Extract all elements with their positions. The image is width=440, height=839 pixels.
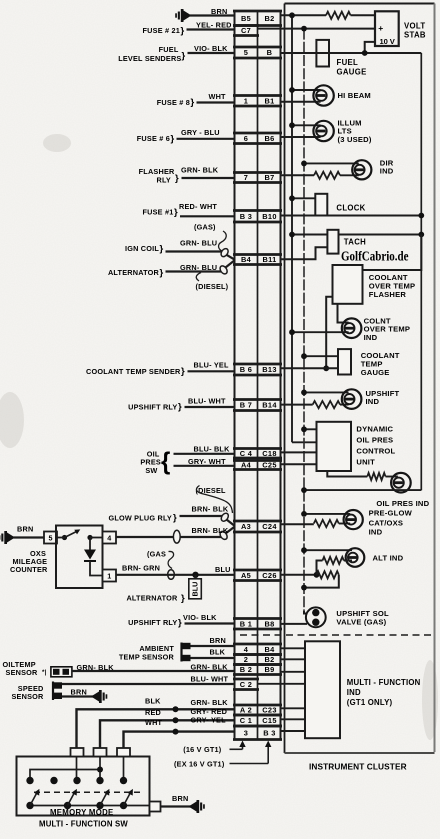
svg-text:WHT: WHT bbox=[209, 92, 227, 101]
connector cell C2 bbox=[233, 679, 259, 690]
wire GRY-WHT to A4 bbox=[174, 465, 235, 467]
bus line 2 (x304) bbox=[303, 29, 305, 613]
wire C18 to dyn unit bbox=[281, 451, 317, 453]
svg-text:}: } bbox=[178, 402, 182, 413]
sw contact dots row1 bbox=[26, 777, 127, 784]
svg-text:5: 5 bbox=[244, 48, 248, 57]
wire B11 staircase to tach bbox=[281, 247, 328, 259]
svg-text:}: } bbox=[171, 134, 175, 145]
svg-text:BLU- WHT: BLU- WHT bbox=[191, 675, 229, 684]
svg-text:IND: IND bbox=[366, 397, 380, 406]
svg-text:VALVE (GAS): VALVE (GAS) bbox=[336, 618, 386, 627]
wire GRY-BLU to 6 bbox=[177, 138, 235, 140]
svg-text:IND: IND bbox=[364, 333, 378, 342]
wire BLU-WHT to B7 bbox=[185, 406, 235, 408]
wire RED/GRY-RED to C1 bbox=[100, 720, 235, 756]
junction dot voltstab-rail bbox=[362, 50, 368, 56]
label OXS MILEAGE COUNTER bbox=[10, 549, 48, 574]
svg-text:GRN- BLK: GRN- BLK bbox=[181, 166, 219, 175]
wire B14 to resistor upshift bbox=[281, 404, 313, 406]
svg-text:4: 4 bbox=[107, 534, 111, 543]
wire C26 into node bbox=[281, 574, 317, 576]
wire bus1 to clock bbox=[292, 197, 315, 199]
svg-text:BRN- BLK: BRN- BLK bbox=[192, 526, 229, 535]
resistor R-oilpres bbox=[367, 473, 385, 480]
oxs wire pin5 to contacts bbox=[57, 537, 65, 539]
svg-text:UPSHIFT RLY: UPSHIFT RLY bbox=[128, 618, 177, 627]
svg-text:GRN- BLK: GRN- BLK bbox=[77, 663, 115, 672]
svg-text:UPSHIFT SOL: UPSHIFT SOL bbox=[336, 609, 389, 618]
connector cell B7/B14 bbox=[233, 400, 282, 411]
speed sensor symbol bbox=[53, 682, 62, 701]
wire tach to bus3 bbox=[339, 234, 422, 236]
svg-text:GAUGE: GAUGE bbox=[361, 368, 390, 377]
svg-text:ALTERNATOR: ALTERNATOR bbox=[108, 268, 160, 277]
svg-text:C25: C25 bbox=[262, 461, 276, 470]
svg-text:IND: IND bbox=[380, 167, 394, 176]
svg-text:GLOW PLUG RLY: GLOW PLUG RLY bbox=[108, 513, 172, 522]
svg-text:GRY- WHT: GRY- WHT bbox=[188, 457, 226, 466]
svg-text:MULTI - FUNCTION: MULTI - FUNCTION bbox=[347, 678, 421, 687]
connector cell A2/C23 bbox=[233, 705, 282, 715]
connector cell 5/B bbox=[233, 47, 282, 58]
lamp colnt over temp ind bbox=[342, 318, 362, 338]
wire BLK/GRN-BLK to A2 bbox=[77, 709, 235, 756]
connector cell 4/B4 bbox=[233, 644, 282, 655]
ground multi-function sw bbox=[189, 800, 205, 813]
svg-text:B4: B4 bbox=[264, 645, 275, 654]
wire gnd to pin5 bbox=[14, 536, 45, 538]
connector cell B6/B13 bbox=[233, 364, 282, 375]
svg-text:GRY- YEL: GRY- YEL bbox=[191, 716, 227, 725]
svg-text:B14: B14 bbox=[262, 401, 277, 410]
svg-text:5: 5 bbox=[49, 534, 53, 543]
splice dot C1 wire bbox=[173, 717, 179, 723]
connector cell 7/B7 bbox=[233, 173, 282, 183]
connector cell 1/B1 bbox=[233, 96, 282, 107]
volt stab U-VS box bbox=[375, 11, 399, 46]
wire stub multifunction 5 bbox=[281, 707, 306, 709]
oxs pin 4 box bbox=[103, 532, 117, 544]
svg-text:SW: SW bbox=[145, 466, 157, 475]
svg-text:}: } bbox=[181, 593, 185, 604]
label FLASHER RLY bbox=[139, 167, 175, 185]
svg-text:C 1: C 1 bbox=[240, 716, 252, 725]
svg-text:BRN: BRN bbox=[210, 636, 226, 645]
svg-text:AMBIENT: AMBIENT bbox=[139, 644, 174, 653]
svg-text:}: } bbox=[174, 207, 178, 218]
oxs mileage counter box bbox=[56, 526, 103, 589]
svg-text:BLK: BLK bbox=[210, 647, 226, 656]
svg-text:VIO- BLK: VIO- BLK bbox=[194, 44, 228, 53]
svg-text:TACH: TACH bbox=[344, 237, 366, 246]
wire bus1 to hi beam lamp bbox=[292, 89, 321, 91]
sw levers bbox=[30, 789, 133, 806]
svg-text:B11: B11 bbox=[262, 255, 276, 264]
label FUEL GAUGE bbox=[337, 58, 367, 77]
oxs pin 5 box bbox=[44, 532, 57, 544]
svg-text:(DIESEL): (DIESEL) bbox=[196, 282, 229, 291]
connector cell 2/B2 bbox=[233, 655, 282, 665]
svg-text:GolfCabrio.de: GolfCabrio.de bbox=[341, 249, 409, 264]
svg-text:PRE-GLOW: PRE-GLOW bbox=[369, 508, 413, 517]
svg-text:VOLT: VOLT bbox=[404, 21, 425, 30]
resistor R-upshift-ind bbox=[313, 401, 340, 408]
svg-text:TEMP SENSOR: TEMP SENSOR bbox=[119, 653, 175, 662]
wire B7 to resistor dir ind bbox=[281, 174, 315, 176]
upshift sol valve symbol bbox=[306, 607, 326, 627]
connector rail right bbox=[280, 11, 282, 740]
svg-text:}: } bbox=[178, 617, 182, 628]
svg-text:7: 7 bbox=[244, 173, 248, 182]
svg-text:BRN: BRN bbox=[211, 7, 227, 16]
svg-text:GRN- BLK: GRN- BLK bbox=[191, 662, 229, 671]
wire bus2 to preglow lamp bbox=[304, 513, 350, 515]
label MULTI-FUNCTION IND (GTI ONLY) bbox=[347, 678, 421, 707]
svg-text:CLOCK: CLOCK bbox=[336, 203, 365, 212]
label COLNT OVER TEMP IND bbox=[364, 316, 411, 342]
diode D1 bbox=[84, 550, 96, 562]
wire flasher left output to B13 bbox=[326, 297, 332, 369]
svg-text:FUEL: FUEL bbox=[337, 58, 359, 67]
connector cell A3/C24 bbox=[233, 521, 282, 532]
sw wire stub2 down bbox=[99, 757, 101, 781]
svg-text:BRN: BRN bbox=[172, 794, 188, 803]
wire VIO-BLK to 5 bbox=[188, 52, 235, 54]
svg-text:BRN- GRN: BRN- GRN bbox=[122, 564, 160, 573]
wire BLU-WHT to C2 bbox=[62, 683, 235, 685]
junction dot tach-bus1 bbox=[289, 232, 295, 238]
wire contact B down to diode bbox=[89, 538, 91, 550]
svg-text:CONTROL: CONTROL bbox=[356, 446, 395, 455]
wire BLU-YEL to B6 bbox=[188, 370, 235, 372]
svg-text:LEVEL SENDERS: LEVEL SENDERS bbox=[118, 54, 181, 63]
svg-text:}: } bbox=[191, 97, 195, 108]
svg-text:OIL PRES IND: OIL PRES IND bbox=[376, 499, 429, 508]
scan smudges bbox=[0, 134, 438, 740]
svg-text:B 1: B 1 bbox=[240, 619, 252, 628]
svg-text:B10: B10 bbox=[262, 212, 276, 221]
wire stub multifunction 6 bbox=[281, 718, 306, 720]
wire resistor to upshift lamp bbox=[340, 404, 349, 406]
dynamic oil pres control unit box bbox=[317, 422, 352, 471]
svg-text:HI BEAM: HI BEAM bbox=[338, 91, 371, 100]
svg-text:DYNAMIC: DYNAMIC bbox=[356, 424, 393, 433]
wire stub multifunction 3 bbox=[281, 671, 306, 673]
svg-text:MULTI - FUNCTION SW: MULTI - FUNCTION SW bbox=[39, 820, 128, 829]
svg-text:IGN COIL: IGN COIL bbox=[125, 244, 159, 253]
splice dot 3 wire bbox=[173, 729, 179, 735]
connector rail middle bbox=[257, 11, 259, 740]
lamp oil pres ind bbox=[391, 473, 411, 493]
connector cell B3/B10 bbox=[233, 211, 282, 223]
clock box bbox=[315, 194, 327, 216]
label COOLANT OVER TEMP FLASHER bbox=[369, 273, 416, 299]
svg-text:*|: *| bbox=[42, 669, 47, 676]
junction dot colnt lamp bbox=[289, 329, 295, 335]
sw wire stub3 down bbox=[123, 757, 125, 781]
wire blu drop to alternator bbox=[195, 575, 197, 599]
svg-text:FUSE # 21: FUSE # 21 bbox=[143, 26, 181, 35]
svg-text:B 6: B 6 bbox=[240, 365, 252, 374]
junction dot alt node bbox=[314, 572, 320, 578]
junction dot coolant gauge bbox=[301, 353, 307, 359]
wire B10 clock to bus3 bbox=[281, 215, 422, 217]
connector cell B4/B11 bbox=[233, 255, 282, 265]
connector cell A4/C25 bbox=[233, 461, 282, 470]
svg-text:(GAS: (GAS bbox=[147, 549, 166, 558]
svg-text:4: 4 bbox=[244, 645, 249, 654]
svg-text:BLU- YEL: BLU- YEL bbox=[194, 360, 229, 369]
junction dot preglow bbox=[301, 511, 307, 517]
label DYNAMIC OIL PRES CONTROL UNIT bbox=[356, 424, 395, 466]
svg-text:FUEL: FUEL bbox=[159, 45, 179, 54]
wire bus2 to oil pres lamp bottom bbox=[304, 489, 421, 491]
junction dot upshift ind bbox=[301, 390, 307, 396]
dashed separator line bbox=[240, 634, 434, 636]
label UPSHIFT IND bbox=[366, 389, 400, 406]
svg-text:B9: B9 bbox=[264, 665, 274, 674]
connector cell C4/C18 bbox=[233, 449, 282, 459]
svg-text:C 2: C 2 bbox=[240, 680, 252, 689]
svg-text:BLU: BLU bbox=[215, 565, 231, 574]
ground oxs bbox=[0, 531, 15, 544]
coolant temp gauge box bbox=[338, 349, 351, 374]
svg-text:FLASHER: FLASHER bbox=[369, 290, 407, 299]
svg-text:IND: IND bbox=[347, 688, 361, 697]
connector cell C7 bbox=[233, 26, 259, 36]
svg-text:RED- WHT: RED- WHT bbox=[179, 202, 217, 211]
wire bus3 to flasher box bbox=[363, 235, 422, 271]
loop pin4 merge bbox=[219, 530, 229, 541]
svg-text:B 3: B 3 bbox=[263, 728, 275, 737]
label DIR IND bbox=[380, 158, 394, 175]
wire BLU-BLK to C4 bbox=[174, 453, 235, 455]
oxs pin 1 box bbox=[103, 570, 117, 582]
label OIL PRES SW bbox=[140, 449, 161, 475]
wire B1 to hi beam lamp bbox=[281, 101, 321, 103]
wire C7 to volt stab + bbox=[258, 28, 376, 30]
junction dot flasher-B13 bbox=[323, 365, 329, 371]
resistor R-alt1 bbox=[323, 557, 344, 564]
svg-text:B 2: B 2 bbox=[240, 665, 252, 674]
svg-text:IND: IND bbox=[369, 528, 383, 537]
svg-text:GRY- RED: GRY- RED bbox=[191, 707, 228, 716]
svg-text:+: + bbox=[378, 23, 383, 33]
svg-text:INSTRUMENT CLUSTER: INSTRUMENT CLUSTER bbox=[309, 762, 407, 772]
svg-text:1: 1 bbox=[244, 96, 248, 105]
svg-text:}: } bbox=[173, 513, 177, 524]
label SPEED SENSOR bbox=[11, 684, 44, 701]
svg-text:FUSE #1: FUSE #1 bbox=[142, 208, 173, 217]
connector cell 6/B6 bbox=[233, 133, 282, 144]
svg-text:(EX 16 V GT1): (EX 16 V GT1) bbox=[174, 759, 225, 768]
svg-text:WHT: WHT bbox=[145, 718, 163, 727]
sw stub 1 bbox=[71, 748, 84, 757]
svg-text:FUSE # 8: FUSE # 8 bbox=[157, 98, 190, 107]
svg-text:B5: B5 bbox=[241, 14, 251, 23]
wire GRN-BLK to 7 bbox=[182, 177, 235, 179]
svg-text:BLU- BLK: BLU- BLK bbox=[194, 444, 231, 453]
resistor R-alt2 bbox=[317, 571, 339, 578]
lamp pre-glow cat/oxs ind bbox=[344, 510, 363, 529]
junction dot hibeam bbox=[289, 87, 295, 93]
svg-text:}: } bbox=[160, 244, 164, 255]
svg-text:(GT1 ONLY): (GT1 ONLY) bbox=[347, 698, 393, 707]
wire volt stab output bbox=[365, 42, 375, 53]
svg-text:C26: C26 bbox=[262, 571, 276, 580]
wire oil temp sensor to B2cell bbox=[72, 670, 235, 672]
svg-text:C15: C15 bbox=[262, 716, 276, 725]
svg-text:ALT IND: ALT IND bbox=[373, 554, 404, 563]
svg-text:6: 6 bbox=[244, 134, 248, 143]
svg-text:GRN- BLK: GRN- BLK bbox=[191, 698, 229, 707]
svg-text:BLU- WHT: BLU- WHT bbox=[188, 397, 226, 406]
lamp dir ind bbox=[352, 160, 371, 179]
ground top left bbox=[175, 9, 191, 22]
wire bus1 to tach bbox=[292, 234, 327, 236]
wire dyn unit to resistor bbox=[327, 471, 367, 477]
oil temp sensor symbol bbox=[51, 667, 72, 677]
svg-text:UNIT: UNIT bbox=[356, 457, 375, 466]
sw stub 2 bbox=[94, 748, 107, 757]
svg-text:B13: B13 bbox=[262, 365, 276, 374]
resistor R-preglow bbox=[314, 520, 339, 527]
svg-text:B2: B2 bbox=[264, 14, 274, 23]
svg-text:SENSOR: SENSOR bbox=[11, 692, 44, 701]
label FUEL LEVEL SENDERS bbox=[118, 45, 181, 63]
svg-text:STAB: STAB bbox=[404, 30, 426, 39]
label VOLT STAB bbox=[404, 21, 426, 39]
lamp illum lts bbox=[313, 121, 333, 141]
wire B to fuel gauge rail bbox=[281, 52, 422, 54]
connector cell C1/C15 bbox=[233, 715, 282, 726]
wire C24 to resistor preglow bbox=[281, 523, 314, 525]
bus line 1 (x292) bbox=[292, 15, 317, 442]
grommet ellipse pin4 wire bbox=[173, 530, 180, 543]
svg-text:VIO- BLK: VIO- BLK bbox=[183, 613, 217, 622]
svg-text:B2: B2 bbox=[264, 655, 274, 664]
coolant over temp flasher box bbox=[333, 265, 363, 304]
svg-text:FUSE # 6: FUSE # 6 bbox=[137, 134, 170, 143]
wire alt lamp to resistor1 bbox=[344, 560, 352, 562]
wire BRN speed to gnd bbox=[62, 695, 95, 697]
svg-text:COOLANT TEMP SENDER: COOLANT TEMP SENDER bbox=[86, 367, 181, 376]
svg-text:SENSOR: SENSOR bbox=[6, 668, 39, 677]
svg-text:CAT/OXS: CAT/OXS bbox=[369, 518, 404, 527]
svg-text:B: B bbox=[267, 48, 273, 57]
wire C25 to dyn unit bbox=[281, 463, 317, 465]
svg-text:A 2: A 2 bbox=[240, 706, 252, 715]
svg-text:ALTERNATOR: ALTERNATOR bbox=[126, 594, 178, 603]
resistor R-voltstab bbox=[326, 12, 351, 19]
connector cell 3/B3 bbox=[233, 726, 282, 740]
svg-text:BLK: BLK bbox=[145, 696, 161, 705]
svg-text:1: 1 bbox=[107, 572, 111, 581]
junction dot dir ind bbox=[301, 161, 307, 167]
wire BRN to B5 bbox=[190, 14, 235, 16]
wire ign coil to B4 bbox=[166, 247, 235, 259]
svg-text:C7: C7 bbox=[241, 26, 251, 35]
wire resistor to volt stab bbox=[351, 14, 376, 16]
junction dot clock bbox=[289, 195, 295, 201]
wire pin1 to A5 bbox=[116, 574, 235, 576]
svg-text:3: 3 bbox=[244, 728, 248, 737]
instrument cluster box bbox=[285, 4, 435, 754]
connector cell B5/B2 bbox=[233, 11, 282, 26]
connector rail left bbox=[234, 11, 236, 740]
wire stub multifunction 2 bbox=[281, 658, 306, 660]
sw stub 3 bbox=[117, 748, 130, 757]
svg-text:C18: C18 bbox=[262, 449, 276, 458]
wire WHT/GRY-YEL to 3 bbox=[124, 732, 235, 757]
svg-text:}: } bbox=[160, 267, 164, 278]
wire bus2 to coolant temp gauge bbox=[304, 355, 338, 357]
wire glow plug to A3 bbox=[180, 512, 235, 526]
pointer 16v gti bbox=[230, 741, 246, 750]
wire bus2 into valve bbox=[304, 611, 308, 614]
svg-text:B4: B4 bbox=[241, 255, 252, 264]
svg-text:BRN- BLK: BRN- BLK bbox=[192, 504, 229, 513]
wire resistor to oil pres lamp bbox=[386, 476, 398, 478]
svg-text:B6: B6 bbox=[264, 134, 274, 143]
svg-text:C23: C23 bbox=[262, 706, 276, 715]
svg-text:}: } bbox=[182, 51, 186, 62]
svg-text:RED: RED bbox=[145, 708, 161, 717]
svg-text:A5: A5 bbox=[241, 571, 251, 580]
wire bus1 to colnt lamp bbox=[292, 331, 349, 333]
label OILTEMP SENSOR bbox=[3, 660, 47, 677]
svg-text:}: } bbox=[181, 366, 185, 377]
squiggle gas to wire bbox=[219, 231, 227, 251]
svg-text:B7: B7 bbox=[264, 173, 274, 182]
junction dot alt ind bbox=[301, 547, 307, 553]
squiggle gas oxs bbox=[168, 551, 174, 568]
svg-text:GAUGE: GAUGE bbox=[337, 68, 367, 77]
svg-text:10 V: 10 V bbox=[380, 37, 396, 46]
svg-text:YEL- RED: YEL- RED bbox=[196, 20, 232, 29]
ambient sensor symbol bbox=[182, 643, 191, 662]
label ILLUM LTS (3 USED) bbox=[338, 118, 372, 144]
wire diode to pin1 bbox=[90, 561, 103, 576]
wire BRN ambient to 4 bbox=[191, 645, 235, 647]
lamp hi beam bbox=[313, 85, 333, 105]
sw rail junction dot bbox=[97, 767, 103, 773]
junction dot tach-bus3 bbox=[418, 232, 424, 238]
svg-text:C24: C24 bbox=[262, 522, 277, 531]
wire B13 to coolant temp gauge bbox=[281, 367, 339, 369]
squiggle diesel to wire bbox=[196, 273, 201, 282]
svg-text:(3 USED): (3 USED) bbox=[338, 135, 372, 144]
svg-text:BRN: BRN bbox=[71, 687, 87, 696]
junction dot bus2 top bbox=[301, 26, 307, 32]
wire stub multifunction 1 bbox=[281, 647, 306, 649]
oxs switch lever bbox=[65, 529, 81, 537]
junction dot clock-bus3 bbox=[418, 213, 424, 219]
splice dot A2 wire bbox=[173, 706, 179, 712]
wire stub multifunction 7 bbox=[281, 730, 306, 732]
squiggle diesel glow bbox=[196, 486, 232, 514]
sw output stub bbox=[150, 802, 161, 812]
wire resistor2 return to bus2 bbox=[304, 575, 339, 588]
svg-text:{: { bbox=[161, 448, 171, 476]
lamp upshift ind bbox=[342, 389, 362, 409]
svg-text:B 7: B 7 bbox=[240, 401, 252, 410]
oxs switch contact dot A bbox=[62, 535, 67, 540]
pointer ex 16v gti bbox=[230, 741, 272, 764]
wire WHT to 1 bbox=[197, 101, 235, 103]
sw dashed line bbox=[34, 791, 140, 793]
